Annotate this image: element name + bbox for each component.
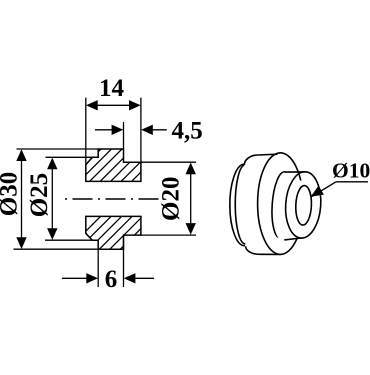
extension line diameter 20 bottom	[141, 234, 196, 236]
leader line diameter 10	[312, 182, 368, 197]
arrowhead diameter 25 top	[47, 158, 57, 170]
pictorial view: flange top tangent line	[258, 153, 277, 156]
dimension line diameter 20	[190, 164, 192, 233]
section hatching, lower half	[55, 192, 199, 262]
pictorial view: boss bottom tangent line	[284, 238, 301, 240]
svg-text:Ø25: Ø25	[26, 173, 53, 217]
extension line flange left (dim 6)	[97, 249, 99, 287]
svg-text:6: 6	[105, 266, 118, 293]
arrowhead diameter 20 top	[186, 163, 196, 175]
extension line diameter 30 bottom	[14, 248, 99, 250]
svg-text:4,5: 4,5	[172, 118, 203, 145]
section outline, upper half (groove, flange, boss, bore)	[86, 149, 141, 181]
extension line diameter 30 top	[17, 148, 99, 150]
pictorial view: boss top tangent line	[285, 171, 306, 173]
extension line left face (dim 14)	[85, 98, 87, 165]
pictorial view: flange bottom tangent line	[259, 253, 280, 255]
svg-text:Ø10: Ø10	[332, 159, 370, 183]
pictorial view: groove back-face outer arc	[230, 164, 245, 245]
pictorial view: boss front-face ellipse	[283, 171, 323, 240]
arrowhead width 4,5 left	[112, 125, 124, 135]
dimension lines width 6	[62, 277, 154, 279]
section hatching, upper half	[55, 125, 199, 195]
section outline, lower half	[86, 216, 141, 249]
extension line boss step (dim 4,5)	[123, 122, 125, 149]
arrowhead width 4,5 right	[141, 125, 153, 135]
dimension line diameter 30	[21, 151, 23, 247]
dimension line diameter 25	[51, 159, 53, 238]
leader arrowhead diameter 10	[311, 186, 324, 197]
svg-text:Ø20: Ø20	[158, 177, 185, 221]
arrowhead diameter 30 top	[16, 149, 26, 161]
arrowhead diameter 30 bottom	[16, 237, 26, 249]
pictorial view: boss body fill	[274, 172, 320, 241]
svg-text:14: 14	[99, 75, 125, 102]
pictorial view: groove back-face chamfer arc	[235, 165, 245, 244]
pictorial view: bore hole ellipse	[295, 185, 312, 225]
arrowhead width 6 left	[86, 273, 98, 283]
extension line right face (dim 14)	[140, 98, 142, 163]
pictorial view: flange front-face ellipse	[258, 153, 304, 255]
arrowhead diameter 20 bottom	[186, 223, 196, 235]
arrowhead width 6 right	[124, 273, 136, 283]
dimension line width 14	[88, 104, 139, 106]
arrowhead width 14 right	[129, 100, 141, 110]
arrowhead diameter 25 bottom	[47, 228, 57, 240]
pictorial view: flange silhouette bottom-left arc	[246, 246, 260, 254]
extension line diameter 25 top	[46, 156, 93, 158]
pictorial view: flange body fill	[244, 153, 303, 255]
centerline (dash-dot axis)	[65, 198, 164, 200]
arrowhead width 14 left	[86, 100, 98, 110]
pictorial view: flange front ellipse spill below boss tangent	[298, 172, 301, 181]
extension line diameter 20 top	[141, 161, 196, 163]
dimension lines width 4,5	[95, 129, 167, 131]
extension line diameter 25 bottom	[45, 239, 92, 241]
pictorial view: boss root ellipse	[270, 171, 295, 238]
extension line flange right (dim 6)	[123, 235, 125, 287]
pictorial view: flange silhouette top-left arc	[244, 155, 258, 165]
svg-text:Ø30: Ø30	[0, 172, 23, 216]
